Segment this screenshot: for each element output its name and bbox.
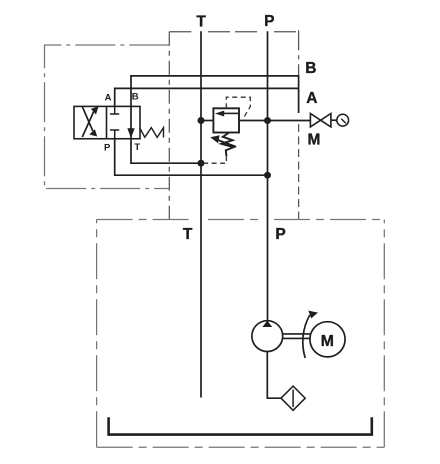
- svg-text:T: T: [183, 226, 193, 243]
- svg-text:B: B: [132, 92, 139, 103]
- suction filter F1: [281, 386, 305, 410]
- directional valve V1 body: [74, 106, 140, 138]
- valve V1 crossed-flow arrow 2: [82, 107, 97, 137]
- power unit chain-line box right edge: [383, 220, 385, 448]
- valve enclosure chain-line box (top-left): [45, 45, 170, 189]
- svg-text:P: P: [275, 226, 285, 243]
- valve V1 return spring: [140, 128, 164, 138]
- wire valve P supply return: [115, 139, 268, 175]
- wire T main line: [200, 31, 202, 397]
- relief valve RV1 flow arrow: [215, 111, 238, 117]
- svg-text:B: B: [305, 60, 316, 77]
- svg-text:T: T: [196, 13, 206, 30]
- relief valve RV1 adjusting arrow: [210, 135, 236, 147]
- svg-text:M: M: [307, 132, 320, 149]
- power unit chain-line box top edge: [97, 219, 385, 221]
- drive shaft: [283, 334, 310, 339]
- tank reservoir: [109, 417, 372, 434]
- wire valve T return: [131, 139, 201, 163]
- svg-text:A: A: [105, 92, 112, 103]
- valve V1 B-to-T flow arrow: [127, 106, 134, 138]
- wire B work port line: [131, 76, 299, 113]
- svg-text:T: T: [134, 142, 140, 153]
- manifold dashed box left edge: [168, 32, 170, 220]
- wire pump suction: [267, 352, 281, 399]
- node T x M-line junction: [198, 117, 205, 124]
- pressure gauge: [337, 114, 349, 126]
- wire M gauge line left segment: [201, 120, 213, 122]
- wire P main line: [267, 31, 269, 321]
- power unit chain-line box bottom edge: [97, 446, 385, 448]
- relief valve RV1 spring: [221, 133, 233, 157]
- svg-text:M: M: [321, 333, 334, 350]
- valve V1 crossed-flow arrow 1: [82, 106, 98, 137]
- svg-text:P: P: [264, 13, 274, 30]
- valve V1 blocked port P symbol: [110, 130, 119, 139]
- needle valve (gauge isolator): [310, 114, 331, 127]
- node P x M-line junction: [264, 117, 271, 124]
- relief valve RV1 pilot line: [226, 97, 250, 119]
- wire M gauge line right segment: [239, 120, 310, 122]
- valve V1 blocked port A symbol: [110, 106, 119, 114]
- wire A work port line: [115, 88, 299, 106]
- pump P1: [252, 321, 283, 352]
- relief valve RV1 body: [213, 108, 239, 132]
- power unit chain-line box left edge: [96, 220, 98, 448]
- relief valve RV1 drain line: [203, 156, 226, 163]
- node P x valve P return junction: [264, 172, 271, 179]
- svg-text:A: A: [306, 90, 317, 107]
- manifold dashed box right edge upper: [298, 30, 300, 75]
- manifold dashed box top edge: [169, 31, 298, 33]
- svg-text:P: P: [104, 143, 111, 154]
- wire gauge link: [331, 119, 337, 121]
- rotation direction arrow: [303, 311, 318, 358]
- manifold dashed box right edge lower: [298, 124, 300, 220]
- node T x valve T return junction: [198, 160, 205, 167]
- motor M1: [310, 322, 345, 357]
